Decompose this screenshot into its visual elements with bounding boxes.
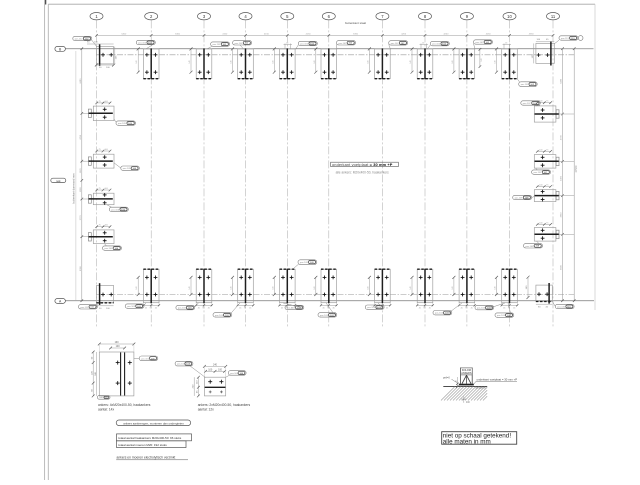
svg-text:pos.103: pos.103 xyxy=(320,315,329,317)
pos label bottom row xyxy=(475,305,494,309)
svg-text:pos.113: pos.113 xyxy=(561,38,569,40)
svg-text:45: 45 xyxy=(249,307,251,309)
wall plate left #3 xyxy=(93,193,114,205)
svg-text:90: 90 xyxy=(150,307,152,309)
outer steel line top xyxy=(66,48,594,50)
base plate bottom row at x=425 xyxy=(417,269,433,303)
grout dim xyxy=(456,377,458,386)
svg-text:pos.103: pos.103 xyxy=(287,308,296,310)
svg-text:45: 45 xyxy=(461,307,463,309)
grid line 5 xyxy=(286,20,288,327)
svg-text:pos.103: pos.103 xyxy=(127,306,136,308)
detail2 left dims xyxy=(197,377,199,396)
foundation anchors triangle xyxy=(462,375,467,384)
base plate top row at x=425 xyxy=(417,49,433,79)
wall plate right #3 xyxy=(534,190,556,202)
svg-text:totaal aantal haakankers M20x4: totaal aantal haakankers M20x400-50: 96 … xyxy=(118,436,182,440)
svg-text:4150: 4150 xyxy=(222,33,228,35)
svg-text:45: 45 xyxy=(505,43,507,45)
svg-text:4700: 4700 xyxy=(561,134,563,140)
pos label left plate 3 xyxy=(109,207,128,211)
grid bubble 11 xyxy=(547,13,560,20)
vdim right of plate9 xyxy=(479,49,481,66)
left extension line xyxy=(75,51,77,301)
detail1 top dims xyxy=(99,343,134,345)
svg-text:45: 45 xyxy=(429,307,431,309)
svg-text:pos.109: pos.109 xyxy=(300,262,309,264)
pos label bottom row xyxy=(285,305,304,309)
svg-text:45: 45 xyxy=(145,307,147,309)
pos label bottom row xyxy=(213,313,232,317)
svg-text:3400: 3400 xyxy=(561,175,563,181)
nok label xyxy=(51,178,66,182)
detail1 column flanges xyxy=(120,352,122,395)
left dimension chain xyxy=(81,49,83,301)
grid line 9 xyxy=(466,20,468,327)
pos label bottom row xyxy=(433,311,452,315)
page corner tick xyxy=(45,0,47,5)
note box niet op schaal xyxy=(442,432,517,445)
pos label left plate 4 xyxy=(103,246,122,250)
corner base plate grid1 top xyxy=(96,47,113,64)
svg-text:pos.103: pos.103 xyxy=(178,308,187,310)
svg-text:pos.103: pos.103 xyxy=(497,315,506,317)
detail1 left dims xyxy=(92,352,94,396)
svg-text:nok: nok xyxy=(56,179,61,183)
svg-text:pos.103: pos.103 xyxy=(477,308,486,310)
corner base plate grid1 bottom xyxy=(96,286,113,303)
svg-text:pos.103: pos.103 xyxy=(177,364,186,366)
small dim above plate xyxy=(284,44,286,49)
grid bubble 7 xyxy=(376,13,389,20)
note box totaal moeren xyxy=(117,441,187,448)
corner base plate grid11 top xyxy=(536,43,554,63)
grid line 11 xyxy=(552,20,554,327)
svg-text:4250: 4250 xyxy=(486,33,492,35)
svg-text:pos.102: pos.102 xyxy=(300,44,309,46)
svg-text:pos.102: pos.102 xyxy=(213,44,222,46)
svg-text:pos.102: pos.102 xyxy=(476,42,485,44)
svg-text:4350: 4350 xyxy=(529,33,535,35)
svg-text:10: 10 xyxy=(507,14,512,19)
base plate bottom row at x=204 xyxy=(196,269,212,303)
circle marker grid11 label xyxy=(578,36,583,41)
small dim above plate xyxy=(503,44,505,49)
extension line left xyxy=(82,198,94,200)
svg-text:pos.107: pos.107 xyxy=(523,103,532,105)
centerline top row xyxy=(96,54,576,56)
svg-text:pos.108: pos.108 xyxy=(515,198,524,200)
svg-text:aantal: 14x: aantal: 14x xyxy=(98,407,114,411)
base plate top row at x=467 xyxy=(459,49,475,79)
svg-text:45: 45 xyxy=(471,307,473,309)
grid bubble 5 xyxy=(281,13,294,20)
right total dimension chain xyxy=(573,49,575,301)
page border top xyxy=(48,3,595,5)
svg-text:ankers: 2xM20x400-50, haakanke: ankers: 2xM20x400-50, haakankers xyxy=(198,403,251,407)
svg-text:4150: 4150 xyxy=(306,33,312,35)
ground hatch xyxy=(441,386,455,400)
grid line 1 xyxy=(96,20,98,327)
svg-text:6390: 6390 xyxy=(80,265,82,271)
pos label top row xyxy=(73,36,92,40)
grid line 7 xyxy=(381,20,383,327)
wall plate right #4 xyxy=(534,228,556,242)
svg-text:pos.112: pos.112 xyxy=(75,39,83,41)
svg-text:240: 240 xyxy=(213,364,218,367)
svg-text:3770: 3770 xyxy=(80,215,82,221)
svg-text:45: 45 xyxy=(422,43,424,45)
svg-text:6580: 6580 xyxy=(561,264,563,270)
corner base plate grid11 bottom xyxy=(536,285,552,301)
svg-text:alle ankers: M20x400-50, haaka: alle ankers: M20x400-50, haakankers xyxy=(336,171,390,175)
svg-text:ankers en moeren electrolytisc: ankers en moeren electrolytisch verzinkt xyxy=(117,456,176,460)
svg-text:pos.102: pos.102 xyxy=(339,43,348,45)
svg-text:45: 45 xyxy=(513,307,515,309)
svg-text:100: 100 xyxy=(218,369,223,372)
grid bubble 9 xyxy=(460,13,473,20)
svg-text:ANKERS: ANKERS xyxy=(461,372,472,375)
extension line right xyxy=(556,233,575,235)
detail1 anchors xyxy=(116,362,120,364)
svg-text:45: 45 xyxy=(503,307,505,309)
svg-text:pos.106: pos.106 xyxy=(111,209,120,211)
svg-text:45: 45 xyxy=(281,307,283,309)
pos label top row xyxy=(337,41,356,45)
base plate bottom row at x=151 xyxy=(143,269,159,303)
svg-text:ankers: 4xM20x400-50, haakanke: ankers: 4xM20x400-50, haakankers xyxy=(98,403,151,407)
pos label top row xyxy=(298,41,317,45)
pos label bottom row xyxy=(495,313,514,317)
svg-text:pos.103: pos.103 xyxy=(367,307,376,309)
pos label top row xyxy=(474,40,493,44)
extension line right xyxy=(556,113,575,115)
pos label detail2 right xyxy=(228,371,246,376)
svg-text:pos.104: pos.104 xyxy=(230,373,239,375)
grid bubble 4 xyxy=(239,13,252,20)
wall plate left #4 xyxy=(93,230,114,244)
svg-text:45: 45 xyxy=(323,307,325,309)
grid bubble 3 xyxy=(198,13,211,20)
pos label top row xyxy=(559,36,578,40)
wall plate left #1 xyxy=(93,106,114,121)
svg-text:6480: 6480 xyxy=(80,78,82,84)
pos label right plate 3 xyxy=(513,195,532,199)
outer steel line bottom xyxy=(66,300,595,302)
wall plate left #2 xyxy=(93,154,114,168)
pos label right plate 4 xyxy=(524,244,543,248)
pos label bottom row xyxy=(318,313,337,317)
svg-text:45: 45 xyxy=(239,307,241,309)
note onderkant voetplaat xyxy=(331,162,399,166)
grid line 4 xyxy=(245,20,247,327)
svg-text:1860: 1860 xyxy=(80,186,82,192)
svg-text:100: 100 xyxy=(208,369,213,372)
extension line left xyxy=(82,236,94,238)
svg-text:4150: 4150 xyxy=(264,33,270,35)
grid bubble A xyxy=(55,299,66,304)
page border right xyxy=(594,4,596,310)
svg-text:aantal: 12x: aantal: 12x xyxy=(198,407,214,411)
grid bubble 8 xyxy=(419,13,432,20)
right dimension chain bays xyxy=(562,49,564,301)
svg-text:pos.107: pos.107 xyxy=(534,172,543,174)
svg-text:27540: 27540 xyxy=(575,165,578,172)
svg-text:190: 190 xyxy=(115,341,120,344)
pos label top row xyxy=(430,41,449,45)
pos label top row xyxy=(389,41,408,45)
pos label top row xyxy=(211,42,230,46)
pos label bottom row xyxy=(79,305,98,309)
extension line left xyxy=(82,160,94,162)
svg-text:onderkant voetplaat = 30 mm +P: onderkant voetplaat = 30 mm +P xyxy=(477,377,518,381)
centerline bottom row xyxy=(96,294,576,296)
base plate bottom row at x=510 xyxy=(502,269,518,303)
base plate top row at x=329 xyxy=(321,49,337,79)
svg-text:100: 100 xyxy=(116,345,121,348)
svg-text:90: 90 xyxy=(465,307,467,309)
extension line right xyxy=(556,160,575,162)
svg-text:pos.111: pos.111 xyxy=(81,307,89,309)
svg-text:45: 45 xyxy=(286,43,288,45)
pos label detail2 left xyxy=(175,361,193,366)
svg-text:1920: 1920 xyxy=(80,168,82,174)
svg-text:pos.102: pos.102 xyxy=(235,43,244,45)
svg-text:45: 45 xyxy=(386,307,388,309)
svg-text:3850: 3850 xyxy=(561,212,563,218)
grid line 2 xyxy=(150,20,152,327)
pos label top row xyxy=(136,40,155,44)
pos label detail1 xyxy=(139,356,158,361)
svg-text:buitenkant staal: buitenkant staal xyxy=(345,21,366,25)
detail plate pos.101 outline xyxy=(99,352,134,396)
detail2 bolt marks xyxy=(209,391,212,393)
note stadium ankers aanbrengen xyxy=(116,420,191,426)
pos label left plate 1 xyxy=(116,121,136,125)
grid line 10 xyxy=(509,20,511,327)
wall plate right #2 xyxy=(534,155,556,169)
svg-text:ankers aanbrengen, monteren da: ankers aanbrengen, monteren dan ondergie… xyxy=(123,421,184,425)
grid line 6 xyxy=(328,20,330,327)
detail2 top dims xyxy=(204,365,225,367)
pos label bottom row xyxy=(176,305,195,309)
small dim above plate xyxy=(420,44,422,49)
pos label grid10 below xyxy=(519,82,538,87)
svg-text:5300: 5300 xyxy=(175,33,181,35)
svg-text:45: 45 xyxy=(208,307,210,309)
svg-text:aangieten: aangieten xyxy=(476,387,487,390)
foundation detail column xyxy=(460,368,462,384)
svg-text:6480: 6480 xyxy=(561,78,563,84)
base plate top row at x=204 xyxy=(196,49,212,79)
svg-text:alle maten in mm: alle maten in mm xyxy=(443,439,491,446)
grid bubble 2 xyxy=(145,13,158,20)
svg-text:45: 45 xyxy=(333,307,335,309)
pos label bottom row xyxy=(365,305,384,309)
svg-text:onderkant voetplaat = 30 mm +P: onderkant voetplaat = 30 mm +P xyxy=(332,162,393,167)
svg-text:pos.105: pos.105 xyxy=(123,168,132,170)
base plate top row at x=287 xyxy=(280,49,296,79)
pos label right plate 1 xyxy=(521,101,541,105)
pos label bottom row xyxy=(555,304,574,308)
svg-text:pos.102: pos.102 xyxy=(432,44,441,46)
svg-text:peil=0: peil=0 xyxy=(443,376,450,379)
pos label field xyxy=(298,260,317,265)
pos label top row xyxy=(233,41,252,45)
pos label bottom row xyxy=(125,304,144,308)
svg-text:pos.103: pos.103 xyxy=(215,315,224,317)
extension line right xyxy=(556,195,575,197)
base plate bottom row at x=246 xyxy=(238,269,254,303)
grid bubble 10 xyxy=(503,13,516,20)
svg-text:pos.106: pos.106 xyxy=(105,248,114,250)
svg-text:pos.101: pos.101 xyxy=(141,358,150,360)
svg-text:90: 90 xyxy=(327,307,329,309)
svg-text:4200: 4200 xyxy=(443,33,449,35)
base plate bottom row at x=287 xyxy=(280,269,296,303)
svg-text:5350: 5350 xyxy=(353,33,359,35)
grid line 3 xyxy=(203,20,205,327)
top dimension chain xyxy=(97,34,554,36)
svg-text:pos.102: pos.102 xyxy=(521,84,530,86)
svg-text:45: 45 xyxy=(155,307,157,309)
svg-text:pos.102: pos.102 xyxy=(138,43,147,45)
base plate top row at x=510 xyxy=(502,49,518,79)
base plate top row at x=246 xyxy=(238,49,254,79)
detail2 anchors xyxy=(208,381,212,383)
extension line left xyxy=(82,112,94,114)
detail2 column flange xyxy=(205,386,226,388)
svg-text:45: 45 xyxy=(419,307,421,309)
foundation base plate xyxy=(459,384,474,386)
grid bubble 6 xyxy=(322,13,335,20)
svg-text:90: 90 xyxy=(244,307,246,309)
ground line xyxy=(443,385,487,387)
svg-text:11: 11 xyxy=(551,14,556,19)
svg-text:4790: 4790 xyxy=(80,134,82,140)
svg-text:pos.105: pos.105 xyxy=(118,123,127,125)
svg-text:pos.103: pos.103 xyxy=(435,313,444,315)
svg-text:90: 90 xyxy=(423,307,425,309)
svg-text:buitenkant damwand mm: buitenkant damwand mm xyxy=(72,173,76,204)
svg-text:pos.110: pos.110 xyxy=(557,307,565,309)
base plate top row at x=382 xyxy=(375,49,391,79)
svg-text:5400: 5400 xyxy=(121,33,127,35)
svg-text:totaal aantal moeren M20: 192: totaal aantal moeren M20: 192 stuks xyxy=(118,443,167,447)
note box totaal haakankers xyxy=(117,434,192,441)
svg-text:4250: 4250 xyxy=(401,33,407,35)
svg-text:pos.108: pos.108 xyxy=(526,246,535,248)
grid bubble B xyxy=(55,46,66,51)
pos label left plate 2 xyxy=(121,166,140,170)
base plate bottom row at x=382 xyxy=(375,269,391,303)
svg-text:90: 90 xyxy=(202,307,204,309)
base plate bottom row at x=329 xyxy=(321,269,337,303)
pos label right plate 2 xyxy=(532,170,551,174)
page border left double line xyxy=(44,0,46,480)
grid line 8 xyxy=(424,20,426,327)
base plate top row at x=151 xyxy=(143,49,159,79)
svg-text:45: 45 xyxy=(198,307,200,309)
grid bubble 1 xyxy=(90,13,103,20)
detail1 lower-left label xyxy=(97,396,110,400)
svg-text:pos.102: pos.102 xyxy=(391,43,400,45)
detail plate pos.103 outline xyxy=(204,377,225,396)
wall plate right #1 xyxy=(534,106,556,122)
base plate bottom row at x=467 xyxy=(459,269,475,303)
